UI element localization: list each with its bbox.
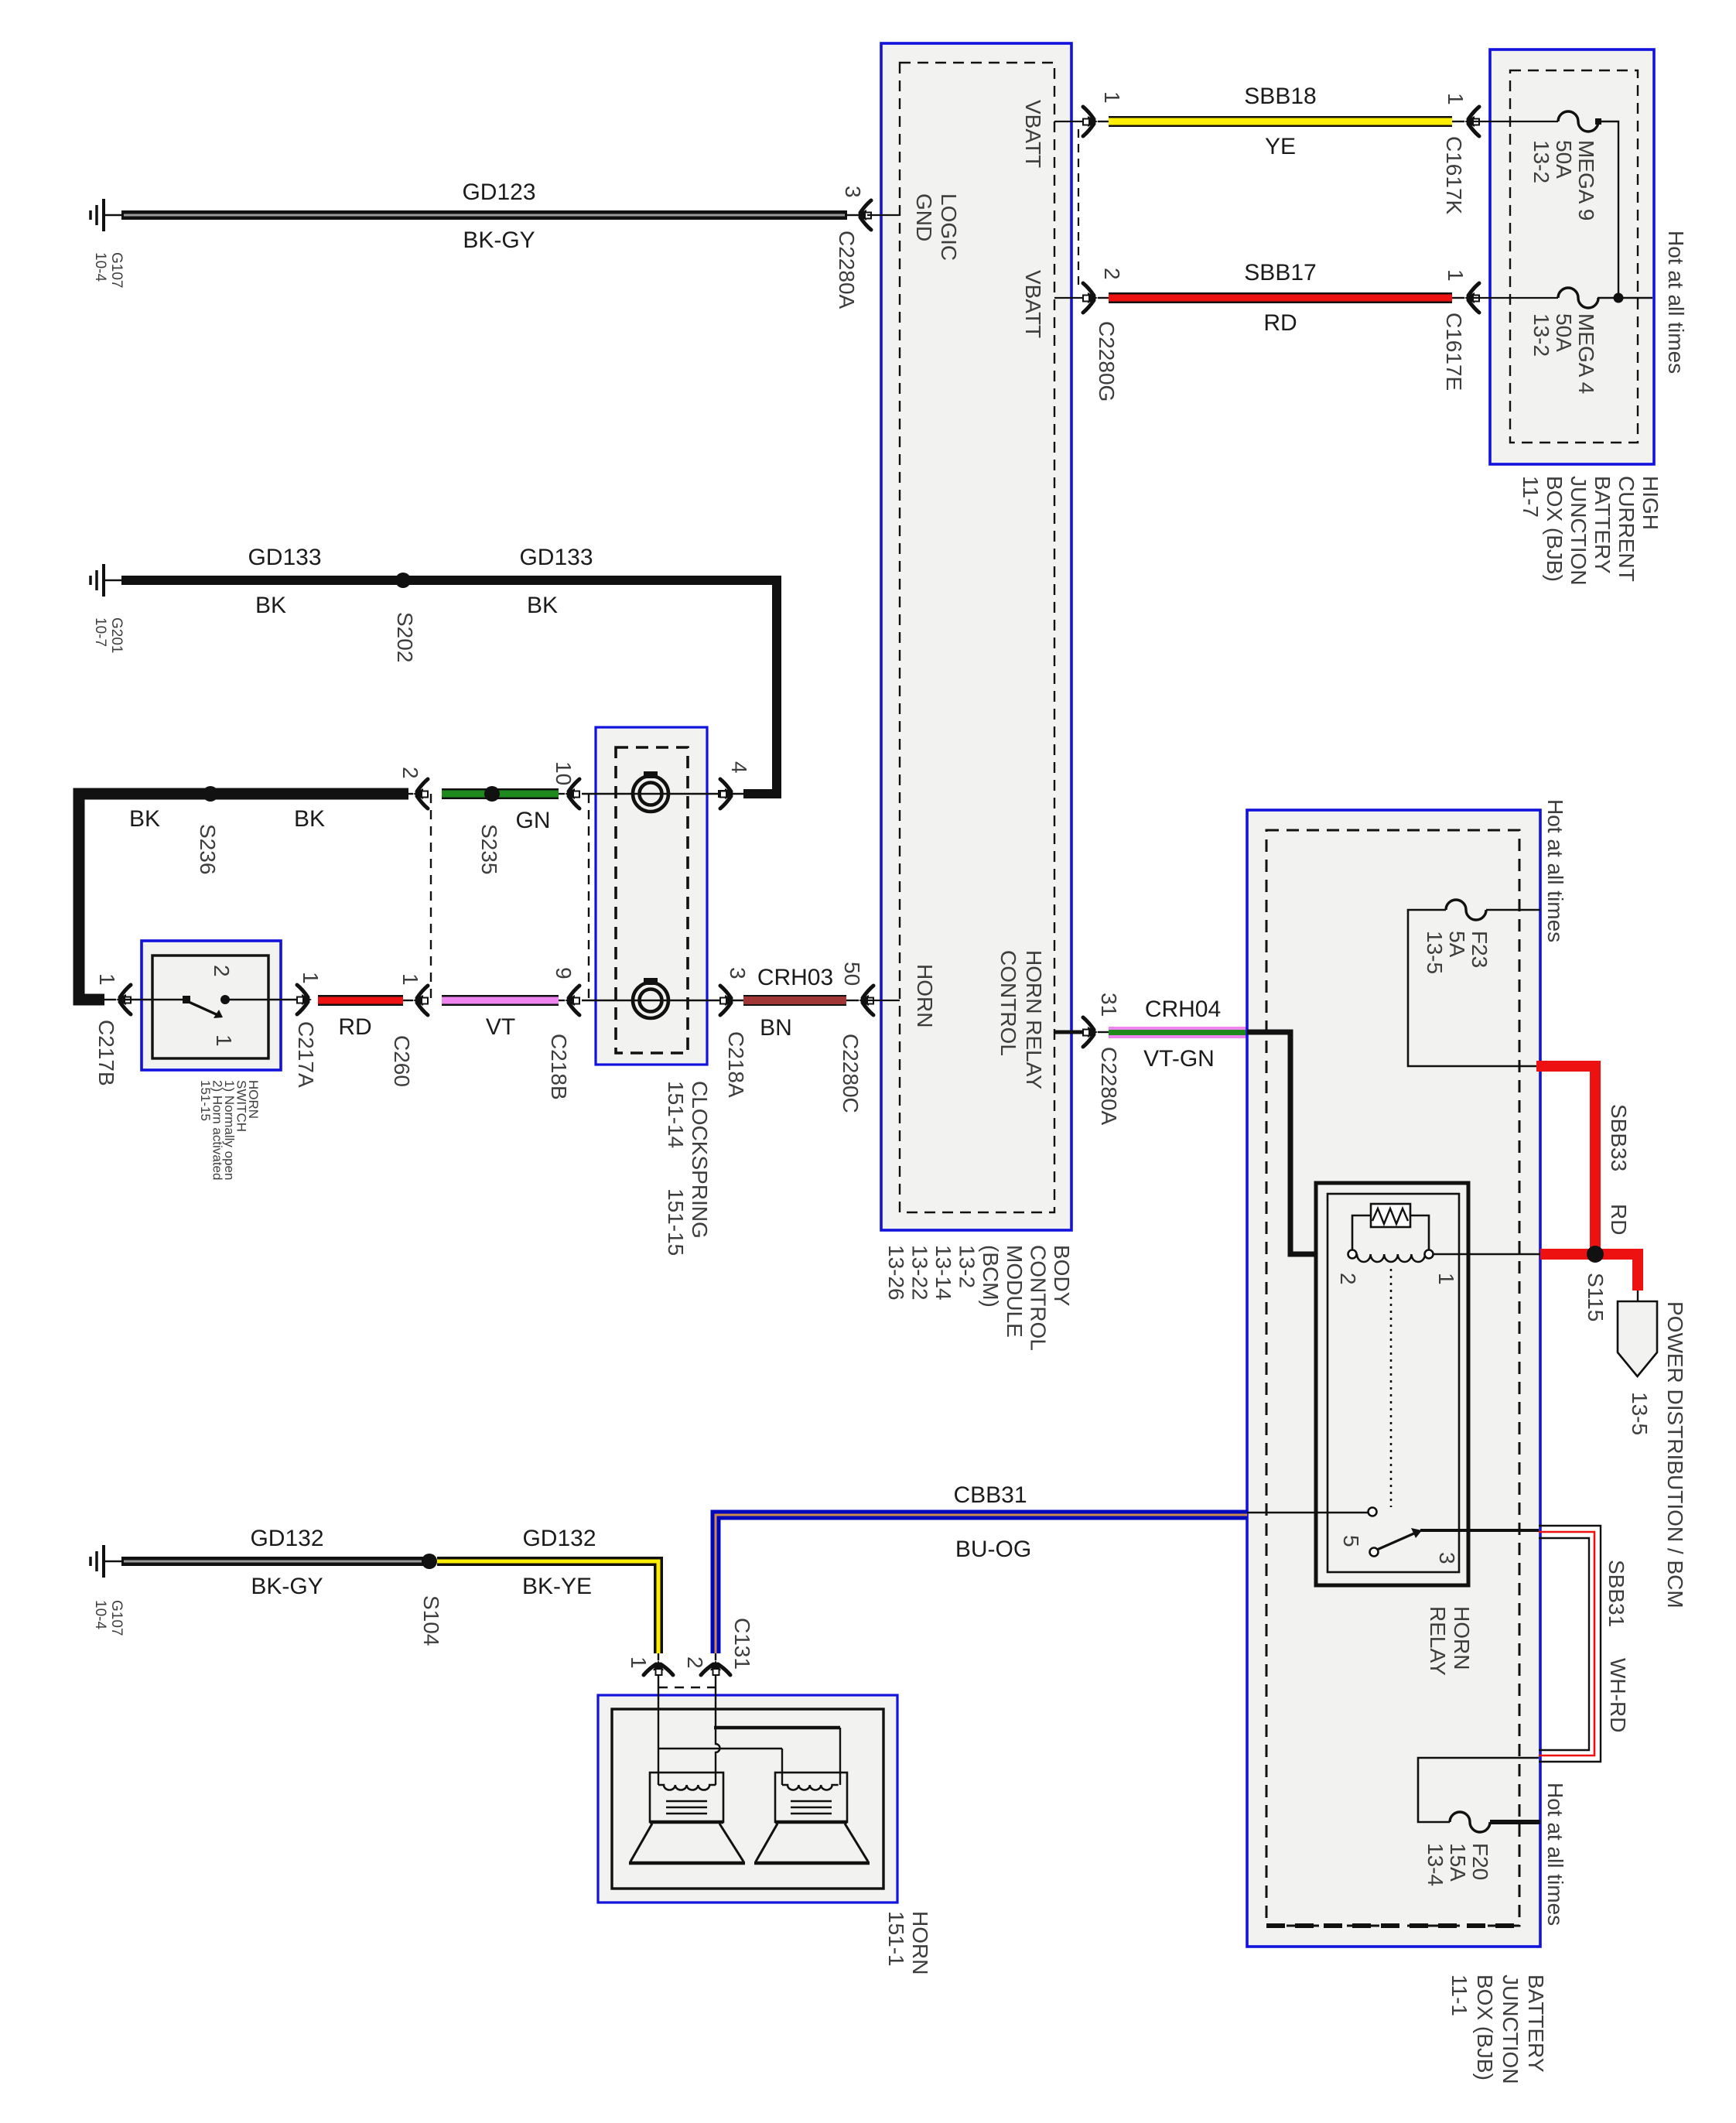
- splice S235: [484, 786, 500, 802]
- relay pin 5 label: [1339, 1535, 1363, 1547]
- BCM label VBATT pin1: [1021, 100, 1045, 168]
- left horn trapezoid: [629, 1824, 745, 1863]
- connector label C217A: [294, 1021, 318, 1088]
- horn switch internals: [125, 995, 306, 1018]
- svg-text:2: 2: [1336, 1273, 1360, 1285]
- splice label S236: [196, 824, 220, 874]
- svg-text:SBB17: SBB17: [1244, 260, 1316, 285]
- relay pin 1 label: [1434, 1273, 1458, 1285]
- label WH-RD: [1606, 1658, 1630, 1732]
- connector arrow pin3: [720, 986, 735, 1015]
- svg-text:C2280A: C2280A: [1097, 1047, 1121, 1126]
- svg-text:31: 31: [1097, 993, 1121, 1017]
- wire CBB31 BU-OG: [716, 1513, 1369, 1653]
- connector arrow C1617K: [1464, 107, 1479, 136]
- svg-text:151-14: 151-14: [664, 1081, 688, 1148]
- svg-text:BN: BN: [760, 1015, 792, 1041]
- svg-text:GD133: GD133: [248, 545, 321, 570]
- offpage connector POWER DISTRIBUTION: [1618, 1291, 1657, 1376]
- label GD132 (left): [250, 1526, 323, 1551]
- fuse F20 hot stub: [1490, 1820, 1540, 1824]
- BCM box: [881, 43, 1071, 1230]
- wire SBB17 RD: [1109, 292, 1464, 303]
- horn internal thick wire: [714, 1728, 840, 1785]
- svg-text:HORN: HORN: [913, 964, 937, 1027]
- connector arrow pin1 C217B: [116, 985, 131, 1014]
- wire CBB31 lower stub: [715, 1653, 716, 1660]
- connector arrow pin1 C217A: [297, 985, 312, 1014]
- fuse MEGA 4 label: [1529, 313, 1598, 394]
- wire GD123 BK-GY: [121, 210, 859, 220]
- clockspring wire top: [582, 793, 743, 795]
- svg-text:F2015A13-4: F2015A13-4: [1423, 1843, 1492, 1886]
- label GD133 (left): [248, 545, 321, 570]
- label CBB31: [953, 1482, 1027, 1508]
- svg-text:1: 1: [1444, 269, 1468, 282]
- svg-text:9: 9: [552, 967, 576, 979]
- svg-text:S104: S104: [419, 1595, 443, 1646]
- svg-text:S202: S202: [393, 612, 417, 662]
- svg-text:HORNRELAY: HORNRELAY: [1426, 1606, 1474, 1676]
- pin label 2 (C131): [683, 1656, 707, 1669]
- svg-text:C1617E: C1617E: [1442, 313, 1466, 391]
- svg-text:RD: RD: [338, 1014, 371, 1040]
- svg-text:S236: S236: [196, 824, 220, 874]
- pin stub 3: [867, 214, 900, 216]
- label SBB31: [1604, 1560, 1628, 1627]
- switch pin label 2: [210, 965, 234, 977]
- label BN: [760, 1015, 792, 1041]
- svg-text:POWER DISTRIBUTION / BCM: POWER DISTRIBUTION / BCM: [1663, 1301, 1687, 1608]
- svg-text:CRH03: CRH03: [757, 965, 833, 990]
- splice S236: [203, 786, 218, 802]
- label Hot at all times (F20): [1543, 1783, 1567, 1926]
- wire SBB33 RD thick: [1536, 1066, 1638, 1291]
- label GD132 (right): [522, 1526, 596, 1551]
- svg-text:CLOCKSPRING: CLOCKSPRING: [688, 1081, 712, 1239]
- pin label 2 (C260): [398, 767, 422, 779]
- connector label C217B: [94, 1020, 118, 1086]
- connector label C218B: [547, 1034, 571, 1100]
- fuse MEGA 9 stub: [1473, 121, 1558, 122]
- label BK (S236 left): [129, 806, 160, 832]
- label VT: [486, 1014, 515, 1040]
- horn pin1 wire: [658, 1676, 659, 1785]
- svg-text:VT-GN: VT-GN: [1143, 1046, 1215, 1072]
- ground label G107 10-4 (bottom): [92, 1600, 125, 1636]
- label Hot at all times (F23): [1543, 799, 1567, 942]
- svg-text:SBB31: SBB31: [1604, 1560, 1628, 1627]
- relay pin 2 label: [1336, 1273, 1360, 1285]
- clockspring pin4 square: [719, 791, 725, 797]
- svg-text:C131: C131: [730, 1618, 754, 1670]
- svg-text:13-5: 13-5: [1628, 1392, 1652, 1435]
- svg-text:BK: BK: [129, 806, 160, 832]
- svg-text:Hot at all times: Hot at all times: [1664, 231, 1688, 374]
- connector label C2280A (pin31): [1097, 1047, 1121, 1126]
- relay coil to S115 wire: [1433, 1253, 1540, 1256]
- BCM caption BODY CONTROL MODULE: [884, 1245, 1074, 1351]
- connector arrow C131 pin2: [701, 1660, 730, 1675]
- label Hot at all times (HCBJB): [1664, 231, 1688, 374]
- connector dashed line C260: [430, 794, 432, 1000]
- svg-text:BK-GY: BK-GY: [463, 227, 535, 253]
- caption HORN SWITCH: [198, 1080, 261, 1180]
- connector arrow pin2 C2280G: [1083, 283, 1109, 313]
- clockspring coupler bottom: [633, 978, 668, 1018]
- svg-text:2: 2: [1100, 268, 1124, 280]
- relay coil winding: [1348, 1250, 1434, 1263]
- pin label 50: [840, 962, 864, 986]
- connector label C1617E: [1442, 313, 1466, 391]
- pin label 3: [841, 186, 865, 198]
- svg-text:2: 2: [683, 1656, 707, 1669]
- wire RD: [318, 995, 413, 1006]
- connector arrow C1617E: [1464, 283, 1479, 313]
- splice label S202: [393, 612, 417, 662]
- connector dashed line C218 left: [588, 794, 589, 1000]
- pin label 1 (C1617E): [1444, 269, 1468, 282]
- svg-text:3: 3: [1435, 1552, 1459, 1564]
- ground label G201 10-7: [92, 617, 125, 653]
- svg-text:VBATT: VBATT: [1021, 100, 1045, 168]
- splice S115: [1587, 1246, 1604, 1263]
- connector arrow pin10: [565, 779, 579, 809]
- svg-text:CRH04: CRH04: [1145, 997, 1221, 1022]
- svg-text:4: 4: [727, 761, 751, 774]
- svg-text:BK-GY: BK-GY: [251, 1574, 323, 1599]
- svg-text:Hot at all times: Hot at all times: [1543, 1783, 1567, 1926]
- label GD133 (right): [519, 545, 593, 570]
- pin label 1 (C217B): [95, 973, 119, 986]
- label BK-GY (GD132): [251, 1574, 323, 1599]
- svg-text:C218A: C218A: [724, 1031, 748, 1098]
- relay pin 3 label: [1435, 1552, 1459, 1564]
- HCBJB internal link wire: [1595, 118, 1652, 303]
- svg-text:1: 1: [398, 973, 422, 986]
- svg-text:BK-YE: BK-YE: [522, 1574, 592, 1599]
- wire GD132 BK-YE: [437, 1561, 658, 1660]
- right horn coil box: [775, 1773, 847, 1822]
- svg-text:SBB18: SBB18: [1244, 84, 1316, 109]
- svg-text:1: 1: [95, 973, 119, 986]
- pin label 1 (C1617K): [1444, 93, 1468, 105]
- BJB box: [1247, 810, 1540, 1947]
- ground G107 (GD132): [91, 1545, 121, 1578]
- svg-text:RD: RD: [1607, 1204, 1631, 1235]
- BCM pin stub VBATT1: [1054, 121, 1086, 122]
- connector label C1617K: [1442, 136, 1466, 215]
- pin label 1 (C131): [627, 1656, 651, 1669]
- connector arrow pin1 C2280G: [1083, 107, 1109, 136]
- svg-text:1: 1: [1100, 91, 1124, 104]
- ground label G107 10-4: [92, 252, 125, 288]
- svg-text:1: 1: [1434, 1273, 1458, 1285]
- label BK-GY: [463, 227, 535, 253]
- svg-text:10: 10: [552, 761, 576, 785]
- label RD: [338, 1014, 371, 1040]
- wire VT: [442, 995, 565, 1006]
- svg-text:1: 1: [1444, 93, 1468, 105]
- svg-text:GD123: GD123: [462, 179, 535, 205]
- splice label S235: [477, 824, 501, 874]
- svg-text:50: 50: [840, 962, 864, 986]
- svg-text:GD132: GD132: [250, 1526, 323, 1551]
- label BK-YE: [522, 1574, 592, 1599]
- svg-text:C217A: C217A: [294, 1021, 318, 1088]
- svg-text:VT: VT: [486, 1014, 515, 1040]
- connector arrow C2280A pin3: [856, 200, 871, 230]
- svg-text:BK: BK: [255, 593, 286, 618]
- pin label 1: [1100, 91, 1124, 104]
- svg-text:C260: C260: [390, 1035, 414, 1087]
- relay switch lever: [1370, 1528, 1423, 1557]
- svg-text:2: 2: [398, 767, 422, 779]
- wire CRH03 BN: [743, 995, 859, 1006]
- wire SBB18 YE: [1109, 116, 1464, 127]
- label VT-GN: [1143, 1046, 1215, 1072]
- splice S104: [422, 1554, 437, 1569]
- caption HORN RELAY: [1426, 1606, 1474, 1676]
- BCM label HORN RELAY CONTROL: [996, 950, 1046, 1089]
- relay pin 3 wire: [1420, 1529, 1539, 1532]
- caption HORN 151-1: [884, 1911, 932, 1974]
- svg-text:CBB31: CBB31: [953, 1482, 1027, 1508]
- connector arrow C131 pin1: [644, 1660, 673, 1675]
- svg-text:C2280A: C2280A: [835, 231, 859, 309]
- connector arrow pin4: [720, 779, 735, 809]
- splice label S104: [419, 1595, 443, 1646]
- svg-text:2: 2: [210, 965, 234, 977]
- label YE: [1265, 134, 1296, 159]
- connector arrow pin2 C260: [413, 779, 428, 809]
- wire GD132 BK-GY: [121, 1557, 423, 1566]
- connector label C2280A: [835, 231, 859, 309]
- fuse MEGA 4: [1558, 288, 1598, 308]
- fuse F23: [1446, 900, 1486, 920]
- svg-text:BK: BK: [527, 593, 558, 618]
- horn internal wire to right horn top: [658, 1749, 782, 1785]
- svg-text:S235: S235: [477, 824, 501, 874]
- svg-text:3: 3: [726, 967, 750, 979]
- wire GN: [442, 788, 565, 799]
- ground G107 (GD123): [91, 199, 121, 231]
- horn switch box: [142, 941, 281, 1070]
- label GN: [516, 808, 551, 833]
- connector label C131: [730, 1618, 754, 1670]
- pin label 4: [727, 761, 751, 774]
- right horn trapezoid: [754, 1824, 870, 1863]
- fuse F23 label: [1423, 931, 1492, 974]
- clockspring coupler top: [633, 771, 668, 812]
- fuse F20: [1450, 1812, 1490, 1832]
- connector label C218A: [724, 1031, 748, 1098]
- caption BATTERY JUNCTION BOX: [1447, 1974, 1548, 2084]
- svg-text:151-15: 151-15: [664, 1188, 688, 1256]
- fuse MEGA 9: [1558, 111, 1598, 132]
- label RD (SBB33): [1607, 1204, 1631, 1235]
- pin label 3 (C218A): [726, 967, 750, 979]
- pin stub 50: [867, 1000, 900, 1001]
- connector label C2280G: [1095, 321, 1119, 402]
- relay armature dotted line: [1390, 1269, 1393, 1507]
- svg-text:Hot at all times: Hot at all times: [1543, 799, 1567, 942]
- pin label 1 (C217A): [299, 972, 323, 984]
- svg-text:S115: S115: [1584, 1273, 1608, 1321]
- svg-text:C218B: C218B: [547, 1034, 571, 1100]
- label CRH04: [1145, 997, 1221, 1022]
- label BK (left): [255, 593, 286, 618]
- label RD: [1263, 310, 1297, 336]
- svg-text:WH-RD: WH-RD: [1606, 1658, 1630, 1732]
- label SBB18: [1244, 84, 1316, 109]
- horn pin2 wire with hop: [716, 1676, 720, 1785]
- fuse F23 circuit wire: [1408, 910, 1540, 1066]
- BCM label HORN: [913, 964, 937, 1027]
- BCM label LOGIC GND: [912, 193, 961, 261]
- svg-text:3: 3: [841, 186, 865, 198]
- svg-text:GD133: GD133: [519, 545, 593, 570]
- relay pin 5 contact: [1369, 1508, 1377, 1516]
- BCM label VBATT pin2: [1021, 270, 1045, 338]
- connector label C260: [390, 1035, 414, 1087]
- svg-text:1: 1: [299, 972, 323, 984]
- svg-text:1: 1: [627, 1656, 651, 1669]
- clockspring box: [596, 727, 707, 1065]
- svg-text:5: 5: [1339, 1535, 1363, 1547]
- svg-text:1: 1: [212, 1034, 236, 1047]
- svg-text:C217B: C217B: [94, 1020, 118, 1086]
- splice label S115: [1584, 1273, 1608, 1321]
- relay coil resistor: [1352, 1204, 1429, 1250]
- pin label 9: [552, 967, 576, 979]
- horn box: [598, 1695, 897, 1902]
- splice S202: [395, 573, 411, 588]
- fuse MEGA 4 stub: [1473, 297, 1558, 299]
- label BK (S236 right): [294, 806, 325, 832]
- svg-text:RD: RD: [1263, 310, 1297, 336]
- pin label 1 (C260): [398, 973, 422, 986]
- svg-text:BK: BK: [294, 806, 325, 832]
- label CRH03: [757, 965, 833, 990]
- label GD123: [462, 179, 535, 205]
- fuse F20 circuit wire: [1418, 1758, 1539, 1822]
- connector dashed line C131: [658, 1687, 716, 1688]
- svg-text:VBATT: VBATT: [1021, 270, 1045, 338]
- clockspring wire bottom: [582, 1000, 743, 1001]
- svg-text:C2280G: C2280G: [1095, 321, 1119, 402]
- svg-text:HORN151-1: HORN151-1: [884, 1911, 932, 1974]
- wire CRH04 to relay coil: [1247, 1032, 1349, 1254]
- left horn coil box: [650, 1773, 723, 1822]
- label 13-5: [1628, 1392, 1652, 1435]
- wire SBB31 WH-RD: [1539, 1526, 1601, 1762]
- wire CRH04 VT-GN: [1109, 1027, 1247, 1038]
- wire BK to horn switch: [79, 794, 413, 1000]
- caption HIGH CURRENT BATTERY JUNCTION BOX: [1519, 476, 1663, 586]
- caption CLOCKSPRING: [664, 1081, 712, 1256]
- pin label 2: [1100, 268, 1124, 280]
- fuse F20 label: [1423, 1843, 1492, 1886]
- svg-text:BU-OG: BU-OG: [955, 1537, 1031, 1562]
- label POWER DISTRIBUTION / BCM: [1663, 1301, 1687, 1608]
- connector dashed line C2280: [1078, 129, 1079, 289]
- fuse MEGA 9 label: [1529, 140, 1598, 221]
- svg-text:GN: GN: [516, 808, 551, 833]
- label SBB33: [1607, 1104, 1631, 1171]
- BCM pin31 stub: [1054, 1031, 1088, 1034]
- pin label 10: [552, 761, 576, 785]
- svg-text:YE: YE: [1265, 134, 1296, 159]
- pin label 31: [1097, 993, 1121, 1017]
- label BK (right): [527, 593, 558, 618]
- svg-text:C2280C: C2280C: [839, 1034, 863, 1113]
- ground G201: [91, 564, 121, 597]
- connector arrow pin31 C2280A: [1083, 1017, 1109, 1047]
- connector arrow pin9: [565, 986, 579, 1015]
- svg-text:GD132: GD132: [522, 1526, 596, 1551]
- HCBJB box: [1490, 50, 1654, 464]
- wire GD133 BK: [121, 580, 777, 794]
- connector label C2280C: [839, 1034, 863, 1113]
- BCM pin stub VBATT2: [1054, 297, 1086, 299]
- label SBB17: [1244, 260, 1316, 285]
- horn relay box: [1316, 1183, 1468, 1585]
- svg-text:SBB33: SBB33: [1607, 1104, 1631, 1171]
- switch pin label 1: [212, 1034, 236, 1047]
- svg-text:C1617K: C1617K: [1442, 136, 1466, 215]
- connector arrow C260 right: [413, 986, 428, 1015]
- connector arrow pin50 C2280C: [859, 986, 873, 1015]
- label BU-OG: [955, 1537, 1031, 1562]
